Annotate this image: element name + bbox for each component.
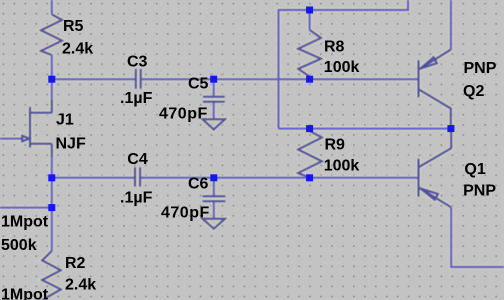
svg-text:Q2: Q2	[463, 83, 484, 100]
svg-text:100k: 100k	[324, 157, 360, 174]
wire: rail1 from C3 to Q2 base	[141, 78, 419, 80]
wire: C5 bottom lead	[213, 102, 215, 119]
node junction R8 bottom	[306, 76, 313, 83]
svg-text:1Mpot: 1Mpot	[1, 286, 49, 300]
wire: J1 drain vertical	[51, 79, 53, 99]
svg-text:2.4k: 2.4k	[65, 276, 96, 293]
transistor Q2 body	[419, 50, 451, 129]
transistor Q2 emitter arrow	[421, 57, 437, 68]
wire: Q2 emitter feed from top edge	[450, 0, 452, 50]
resistor R9 zigzag	[298, 129, 322, 178]
node junction pot tap	[48, 204, 55, 211]
wire: left column rail3 down to pot node	[51, 178, 53, 208]
svg-text:.1µF: .1µF	[120, 189, 153, 206]
wire: J1 source vertical down to rail3	[51, 158, 53, 178]
wire: C6 top lead	[213, 178, 215, 196]
wire: rail3 from C4 to Q1 base	[140, 177, 418, 179]
node junction C6 top	[210, 174, 217, 181]
wire: rail1 left segment node A to C3	[52, 78, 136, 80]
wire: C6 bottom lead	[213, 201, 215, 219]
svg-text:NJF: NJF	[56, 135, 86, 152]
ground below C6	[203, 219, 226, 229]
JFET J1 body	[30, 99, 52, 158]
node junction R9 bottom	[306, 174, 313, 181]
svg-text:R5: R5	[63, 18, 84, 35]
svg-text:R2: R2	[65, 255, 86, 272]
node junction R8 top	[306, 7, 313, 14]
wire: Q1 emitter output down and right to edge	[451, 207, 504, 267]
resistor R2 zigzag	[42, 251, 61, 300]
svg-text:C6: C6	[188, 176, 209, 193]
wire: rail2 horizontal	[279, 128, 451, 130]
wire: R2 top lead	[51, 208, 53, 251]
svg-text:C3: C3	[127, 54, 148, 71]
svg-text:J1: J1	[56, 112, 74, 129]
svg-text:C5: C5	[188, 76, 209, 93]
node A junction (R5/J1/rail1)	[48, 76, 55, 83]
svg-text:Q1: Q1	[464, 161, 485, 178]
svg-text:PNP: PNP	[463, 182, 496, 199]
wire: R5 top lead from top edge	[51, 0, 53, 14]
capacitor C5 plates	[203, 97, 225, 102]
wire: C5 top lead	[213, 79, 215, 96]
capacitor C6 plates	[203, 196, 226, 201]
svg-text:500k: 500k	[1, 237, 37, 254]
svg-text:1Mpot: 1Mpot	[1, 214, 49, 231]
wire: rail3 left segment to C4	[52, 177, 135, 179]
wire: J1 gate lead	[0, 138, 22, 140]
node junction J1 source / rail3	[48, 174, 55, 181]
svg-text:2.4k: 2.4k	[62, 41, 93, 58]
ground below C5	[203, 119, 226, 129]
resistor R8 zigzag	[298, 30, 321, 77]
transistor Q1 body	[419, 129, 452, 208]
resistor R5 zigzag	[41, 14, 62, 55]
node junction Q2 collector / rail2	[447, 125, 454, 132]
wire: R5 bottom lead to node A	[51, 55, 53, 79]
JFET J1 gate arrow	[22, 136, 29, 142]
capacitor C3 plates	[136, 69, 141, 89]
transistor Q1 emitter arrow	[421, 189, 439, 200]
svg-text:470pF: 470pF	[159, 106, 208, 123]
node junction C5 top	[210, 76, 217, 83]
svg-text:PNP: PNP	[464, 60, 497, 77]
svg-text:100k: 100k	[324, 59, 360, 76]
svg-text:470pF: 470pF	[161, 204, 210, 221]
node junction R9 top / rail2	[306, 125, 313, 132]
svg-text:.1µF: .1µF	[120, 90, 153, 107]
svg-text:R9: R9	[325, 137, 346, 154]
svg-text:R8: R8	[324, 39, 345, 56]
svg-text:C4: C4	[127, 151, 148, 168]
wire: top feed L (vertical + horizontal + down to rail2)	[279, 0, 409, 129]
capacitor C4 plates	[135, 167, 140, 186]
wire: R8 top lead	[309, 10, 311, 30]
wire: pot branch to left edge	[0, 207, 52, 209]
